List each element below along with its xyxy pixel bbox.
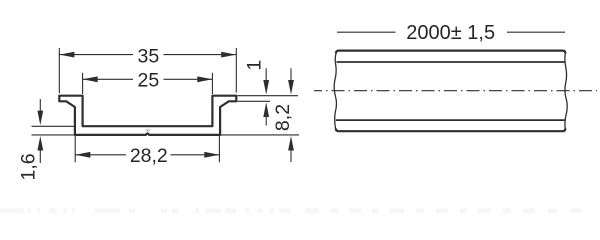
- side view: bottom outer line: [336, 128, 565, 131]
- svg-text:1,6: 1,6: [17, 153, 39, 180]
- arrow 28,2 left: [75, 152, 90, 158]
- extension lines 1 (right of lip): [238, 96, 299, 102]
- svg-text:35: 35: [138, 46, 160, 68]
- arrow 25 right: [197, 76, 212, 82]
- arrow 35 right: [221, 52, 236, 58]
- dimension line 2000: [337, 31, 565, 33]
- svg-text:2000± 1,5: 2000± 1,5: [406, 22, 495, 44]
- extension line 28,2 left: [74, 136, 76, 162]
- dimension line 35: [59, 54, 236, 56]
- side view: top outer line: [336, 51, 565, 54]
- extension line 28,2 right: [218, 136, 220, 162]
- extension line 25 right: [211, 73, 213, 94]
- svg-text:8,2: 8,2: [272, 104, 294, 131]
- arrow 25 left: [83, 76, 98, 82]
- extension line 35 right: [235, 48, 237, 93]
- side view: bottom inner line: [336, 119, 566, 121]
- faint cropped footer text remnants: [0, 209, 582, 214]
- extension line 35 left: [58, 48, 60, 93]
- side view: left break edge: [334, 51, 337, 132]
- dimension 1 arrows: [265, 68, 267, 82]
- dimension line 28,2: [75, 154, 219, 156]
- side view: centerline: [314, 90, 597, 92]
- svg-text:1: 1: [244, 60, 266, 71]
- dimension line 25: [83, 78, 213, 80]
- arrow 35 left: [59, 52, 74, 58]
- arrow 28,2 right: [204, 152, 219, 158]
- svg-text:28,2: 28,2: [130, 145, 168, 167]
- center punch mark shadow: [146, 129, 150, 132]
- rail cross-section profile: [59, 96, 236, 135]
- dimension 1,6 arrows: [39, 99, 41, 112]
- side view: top inner line: [337, 61, 566, 63]
- side view: right break edge: [565, 54, 567, 129]
- extension line 8,2 bottom (right): [221, 134, 299, 136]
- extension lines 1,6 (left, horizontal): [32, 126, 75, 135]
- svg-text:25: 25: [138, 69, 160, 91]
- dimension 8,2 arrows: [290, 68, 292, 82]
- extension line 25 left: [82, 73, 84, 94]
